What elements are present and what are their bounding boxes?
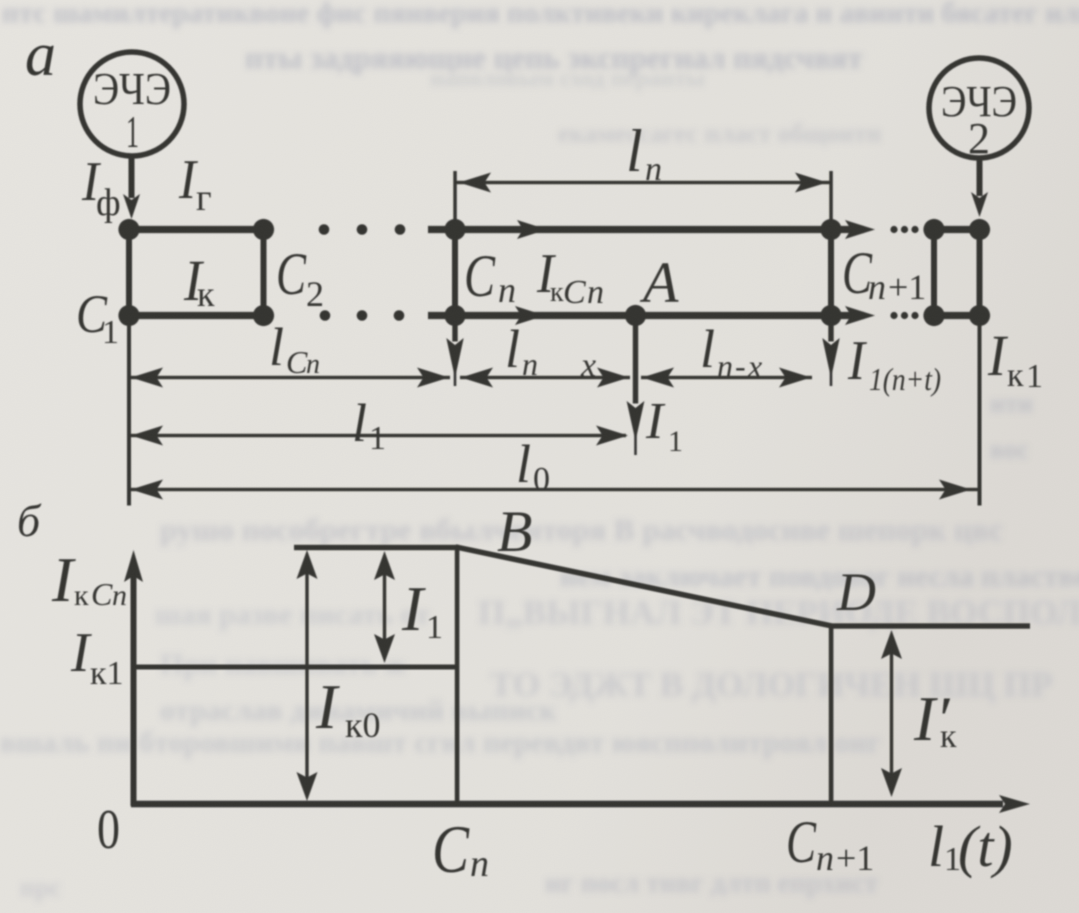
bottom rail arrow stub after Cn+1 bbox=[831, 312, 864, 319]
bottom rail segment right end bbox=[934, 312, 980, 319]
feeder wire from ЭЧЭ 1 bbox=[129, 156, 135, 198]
drain arrow below node A bbox=[633, 316, 638, 404]
small dots bottom rail right bbox=[890, 312, 897, 319]
source ЭЧЭ 1 (circle) bbox=[80, 52, 184, 156]
wire C1 vertical bbox=[126, 230, 132, 316]
wire I_к1 extension down bbox=[978, 316, 982, 506]
dim l_Cn line bbox=[129, 376, 450, 379]
dim l_n-x line bbox=[641, 376, 812, 379]
I_к0 double arrow bbox=[305, 560, 308, 795]
bottom rail segment Cn-A-Cn+1 bbox=[455, 312, 831, 319]
ellipsis dots top rail bbox=[319, 224, 330, 235]
x-axis bbox=[131, 801, 1003, 808]
wire Cn vertical bbox=[452, 230, 458, 316]
I_1 double arrow (graph) bbox=[383, 560, 386, 654]
feeder wire from ЭЧЭ 2 bbox=[977, 158, 983, 196]
nodes bottom rail bbox=[118, 305, 139, 326]
bottom rail stub before Cn bbox=[428, 312, 455, 319]
top rail arrow stub after Cn+1 bbox=[831, 226, 864, 233]
dim l_n line bbox=[455, 181, 831, 184]
small dots top rail right bbox=[890, 226, 897, 233]
current arrow on bottom rail bbox=[515, 306, 545, 325]
wire Cn+1 vertical bbox=[828, 230, 834, 316]
drain arrow below Cn bbox=[452, 316, 457, 342]
bottom rail segment C1-C2 bbox=[129, 312, 264, 319]
I'_к double arrow bbox=[890, 640, 893, 790]
drain arrow below Cn+1 bbox=[828, 316, 833, 342]
current arrow on top rail bbox=[517, 220, 547, 239]
top rail segment right end bbox=[934, 226, 980, 233]
top rail stub before Cn bbox=[428, 226, 455, 233]
top rail segment Cn-Cn+1 bbox=[455, 226, 831, 233]
nodes top rail bbox=[118, 219, 139, 240]
top rail segment C1-C2 bbox=[129, 226, 264, 233]
wire right pair vertical bbox=[931, 230, 937, 316]
flat line after D bbox=[831, 623, 1030, 628]
tick above Cn+1 bbox=[829, 171, 833, 229]
I_к1 level line bbox=[133, 665, 457, 670]
Cn+1 vertical (graph) bbox=[829, 626, 834, 804]
dim l_n_x line bbox=[460, 376, 630, 379]
y-axis bbox=[131, 560, 137, 806]
Cn vertical (graph) bbox=[455, 549, 460, 804]
tick above Cn bbox=[453, 171, 457, 229]
wire ЭЧЭ2 vertical between rails bbox=[977, 230, 983, 316]
top level line bbox=[294, 545, 459, 550]
arrow down into node C1 top bbox=[123, 194, 140, 219]
wire C2 vertical bbox=[261, 230, 267, 316]
declining line B-D bbox=[456, 544, 832, 629]
arrow down into top rail right bbox=[971, 192, 988, 217]
dim l_0 line bbox=[129, 488, 978, 491]
wire C1 extension down bbox=[127, 316, 131, 506]
dim l_1 line bbox=[129, 434, 626, 437]
source ЭЧЭ 2 (circle) bbox=[929, 58, 1029, 158]
ellipsis dots bottom rail bbox=[320, 310, 331, 321]
